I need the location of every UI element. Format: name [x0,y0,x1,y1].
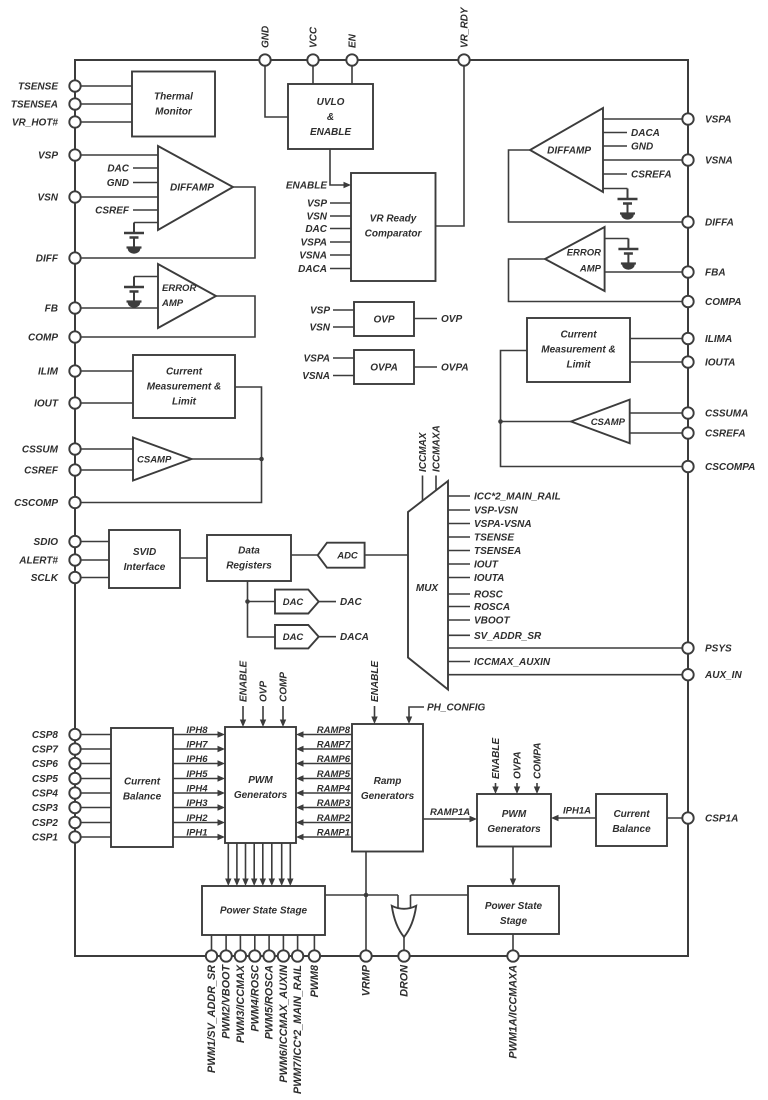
block SVID Interface [109,530,180,588]
wire TSENSE to Thermal Monitor [75,85,132,87]
input stub GND to DIFFAMP right [603,145,627,147]
wire CSP7 to Current Balance [75,748,111,750]
block ADC [318,543,365,568]
wire DIFFAMP right output to DIFFA pin [509,150,689,222]
svg-text:Data: Data [238,546,260,557]
wire Power State Stage to PWM6 pin [282,935,284,956]
wire ERROR AMP right output to COMPA pin [509,259,689,302]
svg-text:ENABLE: ENABLE [310,127,351,138]
svg-text:IPH3: IPH3 [186,798,208,809]
svg-text:ROSC: ROSC [474,590,504,601]
MUX input stub TSENSEA [448,550,470,552]
MUX input stub ROSC [448,593,470,595]
wire PSYS pin to MUX [448,647,688,649]
wire Power State Stage to PWM1 pin [211,935,213,956]
svg-text:CSREFA: CSREFA [631,170,672,181]
output stub OVPA [414,366,437,368]
wire IPH3 Current Balance to PWM Generators [173,807,223,809]
wire CSP6 to Current Balance [75,763,111,765]
wire VRMP from Ramp Generators to VRMP pin [365,852,367,957]
wire IPH8 Current Balance to PWM Generators [173,734,223,736]
svg-text:Thermal: Thermal [154,92,193,103]
pin VR_HOT# [69,116,80,127]
block OVP [354,302,414,336]
control arrow ENABLE into Ramp Generators [374,706,376,722]
pin CSP8 [69,729,80,740]
input stub VSNA to OVPA [333,375,354,377]
svg-text:ICCMAX: ICCMAX [418,431,429,472]
pin CSCOMPA [682,461,693,472]
pin DIFFA [682,216,693,227]
svg-text:FB: FB [45,304,58,315]
svg-text:ENABLE: ENABLE [239,661,250,702]
wire Data Registers down to DACs [248,581,276,637]
wire ENABLE from UVLO to VR Ready Comparator [330,149,349,185]
svg-text:ENABLE: ENABLE [286,181,327,192]
svg-text:FBA: FBA [705,268,726,279]
svg-text:&: & [327,112,334,123]
wire IPH5 Current Balance to PWM Generators [173,778,223,780]
svg-text:SCLK: SCLK [31,573,59,584]
svg-text:ADC: ADC [336,551,358,562]
svg-text:CSCOMPA: CSCOMPA [705,462,755,473]
input stub DAC to DIFFAMP [133,167,158,169]
junction dot VRMP crossing [364,893,369,898]
MUX input stub VSP-VSN [448,509,470,511]
svg-text:VSPA: VSPA [304,354,331,365]
pin VCC [307,54,318,65]
svg-text:IPH1: IPH1 [186,828,207,839]
MUX input stub VSPA-VSNA [448,523,470,525]
svg-text:GND: GND [107,178,129,189]
wire Power State Stage right to OR gate [411,894,469,896]
svg-text:CSP8: CSP8 [32,730,59,741]
svg-text:DACA: DACA [631,128,660,139]
svg-text:AUX_IN: AUX_IN [704,670,742,681]
svg-text:ENABLE: ENABLE [370,661,381,702]
svg-text:OVPA: OVPA [370,363,398,374]
block UVLO & ENABLE [288,84,373,149]
MUX input stub ROSCA [448,606,470,608]
block Ramp Generators [352,724,423,852]
input stub GND to DIFFAMP [133,182,158,184]
svg-text:SV_ADDR_SR: SV_ADDR_SR [474,631,542,642]
wire IOUTA pin to Current Measurement right [630,361,688,363]
svg-text:DAC: DAC [107,164,129,175]
svg-text:CSP3: CSP3 [32,803,59,814]
wire CSAMP right output to vertical net [501,421,572,423]
control arrow ENABLE into PWM Generators left [242,706,244,725]
wire DIFFAMP output to DIFF pin [75,187,255,258]
pin ILIMA [682,333,693,344]
junction dot DAC branch [245,599,250,604]
svg-text:VCC: VCC [309,26,320,48]
wire PH_CONFIG into Ramp Generators [409,707,424,722]
block DAC A [275,625,319,648]
pin CSSUMA [682,407,693,418]
pin DIFF [69,252,80,263]
svg-text:IOUTA: IOUTA [474,573,504,584]
wire CSP4 to Current Balance [75,792,111,794]
svg-text:Generators: Generators [487,824,541,835]
MUX input stub IOUT [448,563,470,565]
pin CSREFA [682,427,693,438]
svg-text:Generators: Generators [234,790,288,801]
svg-text:DRON: DRON [399,965,411,997]
input stub VSPA to VR Ready Comparator [330,241,351,243]
block Current Measurement & Limit right [527,318,630,382]
wire CSP8 to Current Balance [75,734,111,736]
svg-text:TSENSE: TSENSE [474,533,514,544]
pin GND [259,54,270,65]
wire ILIM to Current Measurement [75,370,133,372]
svg-text:EN: EN [348,33,359,48]
wire CSP2 to Current Balance [75,822,111,824]
svg-text:CSP5: CSP5 [32,774,59,785]
wire SDIO to SVID Interface [75,541,109,543]
pin PWM5/ROSCA [263,950,274,961]
wire VSP to DIFFAMP [75,154,158,156]
pin TSENSE [69,80,80,91]
wire PWM Generators right to Power State Stage right [512,847,514,885]
wire PWM phase 6 to Power State Stage [271,843,273,884]
wire VR Ready Comparator output to VR_RDY pin [436,60,465,226]
block Power State Stage right [468,886,559,934]
input stub VSP to VR Ready Comparator [330,202,351,204]
svg-text:PWM: PWM [502,809,527,820]
wire CSP1 to Current Balance [75,836,111,838]
pin SDIO [69,536,80,547]
svg-text:CSAMP: CSAMP [137,455,172,466]
pin PWM6/ICCMAX_AUXIN [278,950,289,961]
wire SVID Interface to Data Registers [180,557,207,559]
ground symbol above-left of ERROR AMP [134,276,158,278]
wire VSN to DIFFAMP [75,196,158,198]
wire IPH4 Current Balance to PWM Generators [173,792,223,794]
pin VSN [69,191,80,202]
MUX input stub SV_ADDR_SR [448,634,470,636]
svg-text:ERROR: ERROR [162,283,196,294]
block DAC [275,590,319,614]
svg-text:Interface: Interface [124,562,166,573]
wire ERROR AMP output to COMP pin [75,296,255,337]
wire CSP1A pin to Current Balance right [667,817,688,819]
svg-text:VSNA: VSNA [302,371,330,382]
wire VSPA pin to DIFFAMP right [603,118,688,120]
MUX input stub ICC*2_MAIN_RAIL [448,495,470,497]
svg-text:OVP: OVP [441,314,462,325]
control arrow OVP into PWM Generators left [262,706,264,725]
op-amp DIFFAMP left [158,146,233,230]
svg-text:RAMP2: RAMP2 [317,813,351,824]
svg-text:TSENSEA: TSENSEA [474,546,521,557]
svg-text:AMP: AMP [161,298,184,309]
control arrow COMPA into PWM Generators right [536,783,538,792]
block Thermal Monitor [132,72,215,137]
svg-text:DIFFA: DIFFA [705,218,734,229]
svg-text:CSP1A: CSP1A [705,814,738,825]
or-gate input stub right [410,895,412,909]
input stub CSREFA to DIFFAMP right [603,173,627,175]
svg-text:PWM7/ICC*2_MAIN_RAIL: PWM7/ICC*2_MAIN_RAIL [292,965,304,1094]
junction dot CSAMP right output [498,419,503,424]
svg-text:VR Ready: VR Ready [370,214,417,225]
pin CSCOMP [69,497,80,508]
svg-text:CSP2: CSP2 [32,818,59,829]
svg-text:IOUT: IOUT [474,560,499,571]
svg-text:MUX: MUX [416,583,440,594]
pin CSP7 [69,743,80,754]
svg-text:RAMP7: RAMP7 [317,740,351,751]
wire ALERT# to SVID Interface [75,559,109,561]
wire ILIMA pin to Current Measurement right [630,338,688,340]
svg-text:CSP7: CSP7 [32,745,59,756]
svg-text:CSAMP: CSAMP [591,417,626,428]
wire VSNA pin to DIFFAMP right [603,159,688,161]
svg-text:VSNA: VSNA [705,156,733,167]
multiplexer MUX [408,481,448,690]
svg-text:RAMP1A: RAMP1A [430,807,470,818]
svg-text:VSN: VSN [306,212,327,223]
svg-text:VSPA: VSPA [301,238,328,249]
svg-text:UVLO: UVLO [317,97,345,108]
pin PWM7/ICC*2_MAIN_RAIL [292,950,303,961]
wire PWM phase 7 to Power State Stage [281,843,283,884]
MUX input stub VBOOT [448,619,470,621]
pin PWM3/ICCMAX [235,950,246,961]
svg-text:TSENSEA: TSENSEA [11,100,58,111]
input stub CSREF to DIFFAMP [133,209,158,211]
svg-text:CSSUM: CSSUM [22,445,59,456]
output stub DACA [319,636,336,638]
svg-text:IPH2: IPH2 [186,813,208,824]
output stub OVP [414,318,437,320]
svg-text:CSREF: CSREF [95,206,130,217]
svg-text:IPH7: IPH7 [186,740,208,751]
svg-text:RAMP4: RAMP4 [317,784,351,795]
svg-text:PWM8: PWM8 [309,965,321,997]
svg-text:TSENSE: TSENSE [18,82,58,93]
svg-text:Current: Current [613,809,650,820]
wire IPH2 Current Balance to PWM Generators [173,822,223,824]
pin ILIM [69,365,80,376]
svg-text:CSP6: CSP6 [32,759,59,770]
wire IOUT to Current Measurement [75,402,133,404]
wire FB to ERROR AMP [75,307,158,309]
svg-text:DAC: DAC [283,597,304,608]
svg-text:ILIMA: ILIMA [705,334,732,345]
svg-text:VSP: VSP [38,151,58,162]
svg-text:CSP4: CSP4 [32,789,59,800]
wire Power State Stage right to PWM1A pin [512,934,514,956]
ground symbol right of ERROR AMP right [605,238,629,240]
svg-text:DAC: DAC [305,224,327,235]
svg-text:PWM1A/ICCMAXA: PWM1A/ICCMAXA [508,965,520,1059]
wire TSENSEA to Thermal Monitor [75,103,132,105]
wire RAMP4 Ramp Generators to PWM Generators [298,792,352,794]
svg-text:IPH5: IPH5 [186,769,208,780]
svg-text:OVP: OVP [259,681,270,702]
svg-text:Ramp: Ramp [374,776,402,787]
outer border frame of IC [75,60,688,956]
wire RAMP6 Ramp Generators to PWM Generators [298,763,352,765]
svg-text:RAMP3: RAMP3 [317,798,351,809]
input ICCMAX to MUX top [422,476,424,501]
pin CSP6 [69,758,80,769]
svg-text:IPH4: IPH4 [186,784,208,795]
svg-text:Registers: Registers [226,561,272,572]
wire EN pin to UVLO [351,60,353,84]
svg-text:VSP: VSP [307,199,327,210]
wire Power State Stage to PWM2 pin [225,935,227,956]
wire Current Measurement output down to CSCOMP net [75,387,262,503]
wire FBA pin to ERROR AMP right [605,271,688,273]
pin EN [346,54,357,65]
svg-text:SDIO: SDIO [34,537,59,548]
pin CSREF [69,464,80,475]
block PWM Generators left [225,727,296,843]
input stub VSN to VR Ready Comparator [330,215,351,217]
wire PWM phase 2 to Power State Stage [236,843,238,884]
svg-text:GND: GND [631,142,653,153]
svg-text:DAC: DAC [283,632,304,643]
or-gate for DRON [392,906,416,937]
svg-text:RAMP6: RAMP6 [317,754,351,765]
pin PWM2/VBOOT [220,950,231,961]
svg-text:COMPA: COMPA [705,297,741,308]
wire RAMP5 Ramp Generators to PWM Generators [298,778,352,780]
svg-text:VSNA: VSNA [299,251,327,262]
output stub DAC [319,601,336,603]
wire IPH6 Current Balance to PWM Generators [173,763,223,765]
input ICCMAXA to MUX top [435,476,437,491]
svg-text:IPH1A: IPH1A [563,806,591,817]
wire GND pin to UVLO [265,60,288,117]
svg-text:COMPA: COMPA [533,743,544,779]
wire PWM phase 3 to Power State Stage [245,843,247,884]
pin CSP4 [69,787,80,798]
wire OR gate output to DRON pin [403,937,405,956]
pin COMPA [682,296,693,307]
svg-text:CSCOMP: CSCOMP [14,498,58,509]
pin ALERT# [69,554,80,565]
block Current Balance left [111,728,173,847]
wire Data Registers to ADC [291,554,318,556]
svg-text:RAMP1: RAMP1 [317,828,350,839]
pin VSP [69,149,80,160]
svg-text:ILIM: ILIM [38,367,59,378]
svg-text:DACA: DACA [298,264,327,275]
svg-text:PWM2/VBOOT: PWM2/VBOOT [221,964,233,1039]
pin IOUTA [682,356,693,367]
pin VR_RDY [458,54,469,65]
svg-text:PWM4/ROSC: PWM4/ROSC [249,965,261,1032]
wire PWM phase 1 to Power State Stage [227,843,229,884]
svg-text:DACA: DACA [340,632,369,643]
op-amp CSAMP right [571,400,630,444]
wire IPH7 Current Balance to PWM Generators [173,748,223,750]
pin AUX_IN [682,669,693,680]
pin VSPA [682,113,693,124]
wire Power State Stage to PWM3 pin [239,935,241,956]
svg-text:VRMP: VRMP [361,964,373,996]
pin CSP5 [69,773,80,784]
svg-text:PWM5/ROSCA: PWM5/ROSCA [264,965,276,1040]
wire CSSUMA pin to CSAMP right [630,412,688,414]
svg-text:Current: Current [166,367,203,378]
svg-text:Power State Stage: Power State Stage [220,906,308,917]
pin COMP [69,331,80,342]
pin PWM1A/ICCMAXA [507,950,518,961]
svg-text:CSREFA: CSREFA [705,429,746,440]
pin DRON [398,950,409,961]
pin PWM1/SV_ADDR_SR [206,950,217,961]
svg-text:Measurement &: Measurement & [541,345,615,356]
junction dot CSAMP output [259,457,264,462]
input stub DACA to VR Ready Comparator [330,268,351,270]
wire RAMP7 Ramp Generators to PWM Generators [298,748,352,750]
block Current Measurement & Limit left [133,355,235,418]
op-amp ERROR AMP left [158,264,216,328]
svg-text:ENABLE: ENABLE [491,738,502,779]
svg-text:Stage: Stage [500,916,528,927]
pin FB [69,302,80,313]
svg-text:ICCMAX_AUXIN: ICCMAX_AUXIN [474,657,551,668]
svg-text:COMP: COMP [279,672,290,702]
pin PWM4/ROSC [249,950,260,961]
block Current Balance right [596,794,667,846]
op-amp ERROR AMP right [545,227,605,291]
svg-text:OVP: OVP [373,315,394,326]
wire SCLK to SVID Interface [75,577,109,579]
pin IOUT [69,397,80,408]
svg-text:VSP-VSN: VSP-VSN [474,506,519,517]
svg-text:ICCMAXA: ICCMAXA [432,425,443,472]
svg-text:VR_RDY: VR_RDY [460,6,471,48]
wire VR_HOT# to Thermal Monitor [75,121,132,123]
wire Power State Stage to PWM8 pin [313,935,315,956]
svg-text:IPH6: IPH6 [186,754,208,765]
pin TSENSEA [69,98,80,109]
pin VSNA [682,154,693,165]
svg-text:DAC: DAC [340,597,362,608]
wire IPH1A Current Balance right to PWM Generators right [553,817,596,819]
wire PWM phase 5 to Power State Stage [262,843,264,884]
block Data Registers [207,535,291,581]
svg-text:Power State: Power State [485,901,543,912]
op-amp CSAMP left [133,438,192,481]
wire RAMP3 Ramp Generators to PWM Generators [298,807,352,809]
or-gate input stub left [397,895,399,909]
svg-text:PWM3/ICCMAX: PWM3/ICCMAX [235,964,247,1043]
svg-text:Balance: Balance [123,792,162,803]
wire Current Measurement right output down to CSCOMPA net [501,351,689,467]
svg-text:RAMP5: RAMP5 [317,769,351,780]
svg-text:DIFFAMP: DIFFAMP [547,146,591,157]
wire CSREF to CSAMP [75,469,133,471]
svg-text:IOUTA: IOUTA [705,358,735,369]
svg-text:VSPA-VSNA: VSPA-VSNA [474,519,532,530]
svg-text:OVPA: OVPA [513,751,524,779]
input stub VSPA to OVPA [333,357,354,359]
wire CSP3 to Current Balance [75,807,111,809]
svg-text:VSPA: VSPA [705,115,732,126]
svg-text:PSYS: PSYS [705,644,732,655]
wire RAMP2 Ramp Generators to PWM Generators [298,822,352,824]
svg-text:Monitor: Monitor [155,107,193,118]
wire RAMP1 Ramp Generators to PWM Generators [298,836,352,838]
svg-text:CSREF: CSREF [24,466,59,477]
